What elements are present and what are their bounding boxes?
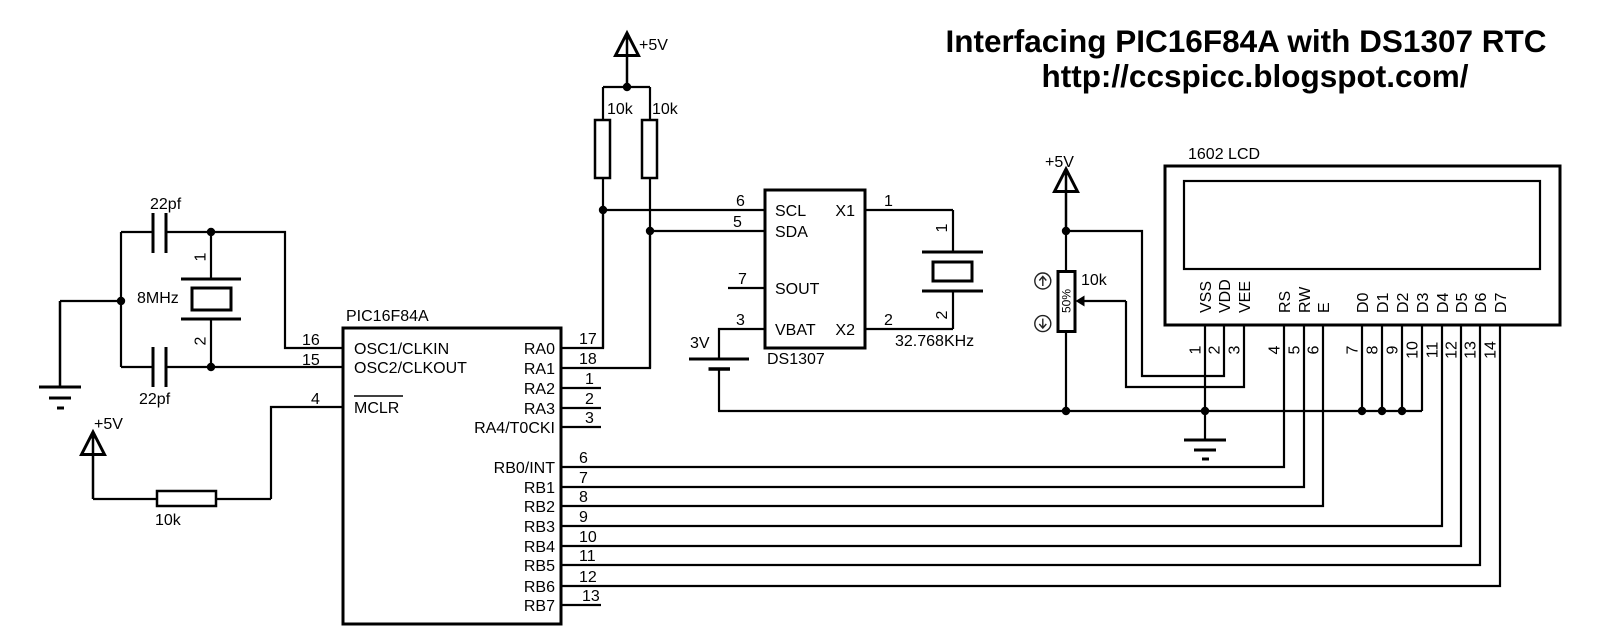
svg-text:+5V: +5V	[1045, 154, 1074, 171]
svg-text:11: 11	[579, 548, 596, 565]
svg-text:RA3: RA3	[524, 401, 555, 418]
ground	[39, 301, 81, 408]
svg-text:8: 8	[1365, 345, 1382, 354]
svg-text:15: 15	[302, 352, 320, 369]
adjust up indicator	[1035, 273, 1051, 289]
node	[623, 83, 631, 91]
svg-text:4: 4	[1267, 345, 1284, 354]
svg-text:13: 13	[582, 588, 600, 605]
svg-text:12: 12	[1444, 341, 1461, 359]
pin 3 stub RA4	[561, 426, 601, 428]
svg-text:RW: RW	[1297, 286, 1314, 313]
wire to OSC1	[211, 232, 343, 348]
pin 2 stub RA3	[561, 407, 601, 409]
svg-text:RB0/INT: RB0/INT	[494, 460, 556, 477]
svg-text:5: 5	[1287, 345, 1304, 354]
svg-text:PIC16F84A: PIC16F84A	[346, 308, 429, 325]
capacitor C2 22pf (bottom)	[121, 347, 211, 408]
svg-text:8: 8	[579, 489, 588, 506]
wire left vertical rail	[120, 232, 122, 367]
svg-text:2: 2	[585, 391, 594, 408]
svg-text:10k: 10k	[155, 512, 182, 529]
svg-text:2: 2	[193, 336, 210, 345]
resistor R3 10k (SDA pull-up)	[642, 87, 679, 368]
wire D7	[561, 325, 1500, 586]
svg-text:RB4: RB4	[524, 539, 555, 556]
svg-text:1: 1	[884, 193, 893, 210]
svg-text:Interfacing PIC16F84A with DS1: Interfacing PIC16F84A with DS1307 RTC	[946, 23, 1547, 59]
wire D5	[561, 325, 1461, 546]
LCD pin numbers	[1188, 341, 1500, 359]
resistor R2 10k (SCL pull-up)	[595, 87, 634, 348]
wire D0	[1361, 325, 1363, 411]
svg-text:VSS: VSS	[1198, 281, 1215, 313]
svg-text:+5V: +5V	[94, 416, 123, 433]
svg-text:D1: D1	[1375, 292, 1392, 313]
svg-text:50%: 50%	[1059, 289, 1073, 313]
node SCL	[599, 206, 607, 214]
node	[207, 228, 215, 236]
svg-text:E: E	[1316, 302, 1333, 313]
svg-text:3: 3	[736, 312, 745, 329]
svg-text:VBAT: VBAT	[775, 322, 816, 339]
svg-text:http://ccspicc.blogspot.com/: http://ccspicc.blogspot.com/	[1041, 58, 1468, 94]
node	[1358, 407, 1366, 415]
svg-text:2: 2	[1207, 345, 1224, 354]
pin 2 wire X2	[865, 328, 953, 330]
svg-text:8MHz: 8MHz	[137, 290, 179, 307]
svg-text:7: 7	[738, 271, 747, 288]
svg-text:RB2: RB2	[524, 499, 555, 516]
svg-text:16: 16	[302, 332, 320, 349]
svg-text:6: 6	[736, 193, 745, 210]
node	[1201, 407, 1209, 415]
wire E	[561, 325, 1323, 506]
wire D1	[1381, 325, 1383, 411]
svg-text:D4: D4	[1435, 292, 1452, 313]
wire	[60, 300, 121, 302]
svg-text:RB1: RB1	[524, 480, 555, 497]
svg-text:18: 18	[579, 351, 597, 368]
svg-text:7: 7	[1345, 345, 1362, 354]
wire to MCLR	[271, 407, 343, 499]
wire VSS to ground	[1204, 325, 1206, 411]
module LCD1 1602 LCD	[1165, 166, 1560, 325]
power +5V (MCLR pull-up)	[82, 416, 124, 499]
svg-text:9: 9	[1385, 345, 1402, 354]
pin 1 stub RA2	[561, 387, 601, 389]
power +5V (pot)	[1045, 154, 1078, 231]
wire RS	[561, 325, 1284, 467]
svg-text:2: 2	[934, 310, 951, 319]
svg-text:6: 6	[1306, 345, 1323, 354]
svg-text:3: 3	[585, 410, 594, 427]
svg-text:9: 9	[579, 509, 588, 526]
svg-text:10k: 10k	[607, 101, 634, 118]
wire RW	[561, 325, 1304, 487]
svg-text:D6: D6	[1473, 292, 1490, 313]
svg-text:SOUT: SOUT	[775, 281, 820, 298]
wire SCL	[603, 209, 765, 211]
svg-text:14: 14	[1483, 341, 1500, 359]
pin 18 wire RA1	[561, 231, 650, 368]
pin 7 stub SOUT	[728, 287, 765, 289]
svg-text:RB5: RB5	[524, 558, 555, 575]
node	[207, 363, 215, 371]
svg-text:7: 7	[579, 470, 588, 487]
wire to OSC2	[211, 366, 343, 368]
svg-text:RB6: RB6	[524, 579, 555, 596]
svg-text:22pf: 22pf	[150, 196, 182, 213]
svg-text:32.768KHz: 32.768KHz	[895, 333, 974, 350]
wire ground rail	[718, 410, 1422, 412]
pin 3 wire VBAT	[719, 329, 765, 358]
potentiometer RV1 10k	[1058, 231, 1108, 411]
svg-text:X1: X1	[835, 203, 855, 220]
svg-text:+5V: +5V	[639, 37, 668, 54]
svg-text:MCLR: MCLR	[354, 400, 399, 417]
svg-text:22pf: 22pf	[139, 391, 171, 408]
svg-text:RA0: RA0	[524, 341, 555, 358]
crystal X1 8MHz	[137, 232, 241, 367]
pin 13 stub RB7	[561, 604, 601, 606]
wire D3	[1421, 325, 1423, 411]
svg-text:10: 10	[1405, 341, 1422, 359]
svg-text:2: 2	[884, 312, 893, 329]
svg-text:SCL: SCL	[775, 203, 806, 220]
svg-text:1: 1	[1188, 345, 1205, 354]
pin 17 wire RA0	[561, 210, 603, 348]
svg-text:RA4/T0CKI: RA4/T0CKI	[474, 420, 555, 437]
svg-text:1: 1	[934, 223, 951, 232]
svg-text:12: 12	[579, 569, 597, 586]
svg-text:RS: RS	[1277, 291, 1294, 313]
wiper arrow / wire VEE feed	[1076, 296, 1245, 388]
svg-text:4: 4	[311, 391, 320, 408]
wire SDA	[650, 230, 765, 232]
node	[1378, 407, 1386, 415]
svg-text:13: 13	[1463, 341, 1480, 359]
svg-text:17: 17	[579, 331, 597, 348]
svg-text:DS1307: DS1307	[767, 351, 825, 368]
svg-text:OSC1/CLKIN: OSC1/CLKIN	[354, 341, 449, 358]
wire D6	[561, 325, 1480, 565]
svg-text:3: 3	[1227, 345, 1244, 354]
svg-text:10k: 10k	[652, 101, 679, 118]
svg-text:6: 6	[579, 450, 588, 467]
node	[1062, 227, 1070, 235]
svg-text:SDA: SDA	[775, 224, 808, 241]
svg-text:D3: D3	[1415, 292, 1432, 313]
wire VDD feed	[1066, 231, 1224, 376]
svg-text:X2: X2	[835, 322, 855, 339]
svg-text:3V: 3V	[690, 335, 710, 352]
svg-text:VDD: VDD	[1217, 279, 1234, 313]
adjust down indicator	[1035, 316, 1051, 332]
battery BT1 3V	[689, 335, 749, 411]
svg-text:1: 1	[193, 252, 210, 261]
crystal X2 32.768KHz	[895, 210, 983, 350]
pin 1 wire X1	[865, 209, 953, 211]
svg-text:RB7: RB7	[524, 598, 555, 615]
svg-text:D0: D0	[1355, 292, 1372, 313]
node pot-gnd	[1062, 407, 1070, 415]
svg-text:11: 11	[1425, 342, 1442, 359]
resistor R1 10k (MCLR pull-up)	[93, 491, 271, 529]
svg-text:RA2: RA2	[524, 381, 555, 398]
svg-text:RA1: RA1	[524, 361, 555, 378]
chip U1 PIC16F84A	[343, 328, 561, 624]
capacitor C1 22pf (top)	[121, 196, 211, 253]
svg-text:10: 10	[579, 529, 597, 546]
svg-text:D7: D7	[1493, 292, 1510, 313]
node: left rail junction	[117, 297, 125, 305]
wire D2	[1401, 325, 1403, 411]
power +5V (pull-ups)	[616, 32, 669, 87]
svg-text:RB3: RB3	[524, 519, 555, 536]
svg-text:VEE: VEE	[1237, 281, 1254, 313]
svg-text:D5: D5	[1454, 292, 1471, 313]
ground (LCD)	[1184, 411, 1226, 459]
node SDA	[646, 227, 654, 235]
wire D4	[561, 325, 1442, 526]
svg-text:1: 1	[585, 371, 594, 388]
svg-text:1602 LCD: 1602 LCD	[1188, 146, 1260, 163]
node	[1398, 407, 1406, 415]
svg-text:5: 5	[733, 214, 742, 231]
svg-text:10k: 10k	[1081, 272, 1108, 289]
chip U2 DS1307	[765, 190, 865, 348]
LCD pin labels	[1198, 279, 1510, 313]
svg-text:OSC2/CLKOUT: OSC2/CLKOUT	[354, 360, 467, 377]
svg-text:D2: D2	[1395, 292, 1412, 313]
wire	[603, 86, 650, 88]
